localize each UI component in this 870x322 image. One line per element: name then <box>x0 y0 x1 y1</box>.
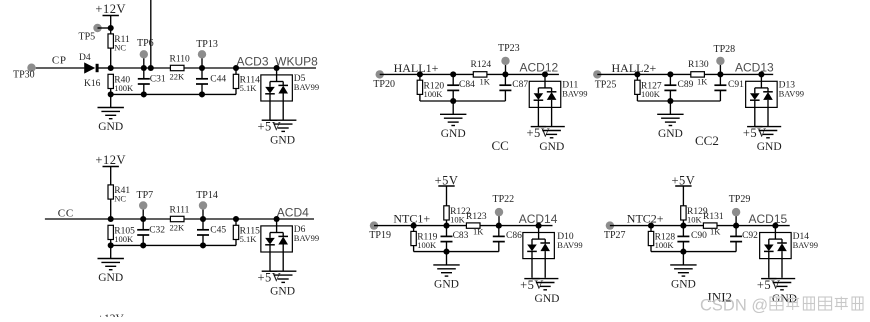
test point TP22 <box>493 194 515 226</box>
svg-text:C44: C44 <box>210 75 226 85</box>
junction <box>733 223 739 229</box>
power +12V <box>95 153 126 185</box>
svg-text:+5V: +5V <box>520 278 544 292</box>
power +5V <box>520 278 544 292</box>
ground <box>769 279 795 290</box>
wire <box>36 67 85 69</box>
svg-text:ACD4: ACD4 <box>277 206 309 220</box>
svg-text:C31: C31 <box>150 75 166 85</box>
diode D10 BAV99 <box>523 226 583 278</box>
wire <box>235 240 237 246</box>
svg-text:GND: GND <box>98 272 123 284</box>
svg-text:TP29: TP29 <box>729 194 751 205</box>
svg-text:C91: C91 <box>728 80 744 90</box>
wire main HALL2 net <box>597 73 773 75</box>
resistor R129 <box>681 206 708 225</box>
power +5V <box>743 126 767 140</box>
junction <box>411 223 417 229</box>
power +5V <box>671 174 695 206</box>
svg-text:CP: CP <box>52 54 67 66</box>
svg-text:22K: 22K <box>170 72 186 82</box>
wire <box>110 89 112 95</box>
resistor R115 <box>233 225 260 244</box>
power +12V <box>95 2 126 28</box>
svg-text:ACD13: ACD13 <box>735 61 774 75</box>
svg-text:TP7: TP7 <box>137 190 154 201</box>
power +5V <box>435 174 459 206</box>
junction <box>667 71 673 77</box>
svg-text:TP14: TP14 <box>196 190 218 201</box>
junction <box>108 216 114 222</box>
wire bottom rail <box>111 244 236 246</box>
svg-text:1K: 1K <box>710 227 721 237</box>
svg-text:100K: 100K <box>417 240 437 250</box>
wire bottom rail <box>651 251 736 253</box>
power +5V <box>757 278 781 292</box>
capacitor C89 <box>664 74 693 101</box>
svg-text:1K: 1K <box>697 77 708 87</box>
svg-text:BAV99: BAV99 <box>294 233 319 243</box>
resistor R110 <box>170 55 190 82</box>
capacitor C45 <box>197 219 226 245</box>
wire <box>235 89 237 95</box>
svg-text:5.1K: 5.1K <box>240 83 258 93</box>
svg-text:+5V: +5V <box>671 174 695 188</box>
svg-text:+5V: +5V <box>257 120 281 134</box>
wire bottom rail <box>637 100 720 102</box>
wire main CP net <box>111 67 316 69</box>
test point TP29 <box>729 194 751 226</box>
svg-text:C92: C92 <box>742 231 758 241</box>
capacitor C91 <box>714 74 744 101</box>
junction <box>648 223 654 229</box>
test point TP6 <box>137 38 154 68</box>
capacitor C44 <box>196 68 226 94</box>
resistor R41 <box>108 185 130 204</box>
svg-text:BAV99: BAV99 <box>557 240 582 250</box>
diode D6 BAV99 <box>261 219 319 271</box>
svg-text:5.1K: 5.1K <box>240 234 258 244</box>
ground <box>98 108 124 134</box>
junction <box>680 223 686 229</box>
svg-text:ACD12: ACD12 <box>520 61 559 75</box>
svg-text:R110: R110 <box>170 55 190 65</box>
svg-text:TP27: TP27 <box>604 230 626 241</box>
svg-text:GND: GND <box>98 121 123 133</box>
svg-text:CSDN @: CSDN @ <box>700 297 768 315</box>
svg-text:NTC2+: NTC2+ <box>627 212 664 226</box>
junction <box>536 223 542 229</box>
svg-text:C90: C90 <box>691 231 707 241</box>
wire <box>650 246 652 252</box>
test point TP7 <box>137 190 154 219</box>
svg-text:BAV99: BAV99 <box>779 89 804 99</box>
test point TP5 <box>79 24 102 43</box>
wire <box>419 94 421 101</box>
resistor R123 <box>466 212 487 237</box>
svg-text:100K: 100K <box>114 234 134 244</box>
junction <box>274 65 280 71</box>
svg-text:GND: GND <box>757 141 782 153</box>
wire <box>682 220 684 226</box>
junction <box>758 71 764 77</box>
svg-text:ACD15: ACD15 <box>749 212 788 226</box>
capacitor C84 <box>447 74 475 101</box>
diode D4 <box>79 53 111 89</box>
resistor R120 <box>417 80 444 99</box>
svg-text:CC2: CC2 <box>695 133 719 148</box>
junction <box>108 242 114 248</box>
wire <box>669 101 671 114</box>
svg-text:GND: GND <box>434 278 459 290</box>
capacitor C31 <box>138 68 166 94</box>
wire bottom rail <box>111 93 236 95</box>
junction <box>443 223 449 229</box>
resistor R122 <box>444 206 471 225</box>
test point TP27 <box>604 221 626 241</box>
svg-text:C86: C86 <box>506 231 522 241</box>
svg-text:BAV99: BAV99 <box>793 240 818 250</box>
junction <box>680 249 686 255</box>
wire <box>110 199 112 219</box>
ground <box>538 127 564 138</box>
test point TP30 <box>13 63 36 80</box>
test point TP14 <box>196 190 218 219</box>
svg-text:NC: NC <box>114 194 126 204</box>
ground <box>532 279 558 290</box>
resistor R105 <box>108 225 135 244</box>
wire <box>419 74 421 80</box>
junction <box>772 223 778 229</box>
test point TP28 <box>714 44 736 74</box>
capacitor C87 <box>499 74 528 101</box>
resistor R11 <box>108 34 130 53</box>
wire main CC net <box>45 218 314 220</box>
wire <box>110 94 112 107</box>
svg-text:100K: 100K <box>641 89 661 99</box>
wire <box>110 48 112 68</box>
capacitor C92 <box>730 226 758 252</box>
test point TP13 <box>196 39 218 68</box>
svg-text:+5V: +5V <box>435 174 459 188</box>
test point TP19 <box>369 221 391 241</box>
svg-text:R131: R131 <box>703 212 724 222</box>
junction <box>502 71 508 77</box>
wire <box>446 220 448 226</box>
wire <box>413 246 415 252</box>
svg-text:10K: 10K <box>687 215 703 225</box>
ground <box>670 265 696 291</box>
svg-text:GND: GND <box>671 278 696 290</box>
svg-text:100K: 100K <box>114 83 134 93</box>
junction <box>141 91 147 97</box>
svg-text:GND: GND <box>270 286 295 298</box>
wire <box>98 27 111 29</box>
svg-text:K16: K16 <box>84 79 101 89</box>
wire <box>682 252 684 265</box>
wire bottom rail <box>420 100 506 102</box>
junction <box>108 25 114 31</box>
svg-text:TP5: TP5 <box>79 32 96 43</box>
junction <box>140 216 146 222</box>
svg-text:R111: R111 <box>170 206 190 216</box>
svg-text:D4: D4 <box>79 53 91 63</box>
resistor R114 <box>233 74 260 93</box>
svg-text:+5V: +5V <box>743 126 767 140</box>
wire <box>446 252 448 265</box>
wire <box>110 240 112 246</box>
resistor R130 <box>688 60 709 87</box>
resistor R127 <box>635 80 662 99</box>
svg-text:TP23: TP23 <box>498 43 520 54</box>
svg-text:GND: GND <box>441 128 466 140</box>
junction <box>667 98 673 104</box>
junction <box>233 216 239 222</box>
wire <box>235 68 237 74</box>
junction <box>717 71 723 77</box>
svg-text:+5V: +5V <box>257 271 281 285</box>
svg-text:TP30: TP30 <box>13 70 35 81</box>
svg-text:1K: 1K <box>473 227 484 237</box>
svg-text:C84: C84 <box>459 80 475 90</box>
wire main NTC1 net <box>374 225 553 227</box>
svg-text:HALL1+: HALL1+ <box>394 61 439 75</box>
wire <box>110 28 112 34</box>
svg-text:C32: C32 <box>149 226 165 236</box>
svg-text:+5V: +5V <box>757 278 781 292</box>
junction <box>148 65 154 71</box>
junction <box>450 71 456 77</box>
svg-text:GND: GND <box>270 135 295 147</box>
junction <box>200 216 206 222</box>
junction <box>140 242 146 248</box>
svg-text:GND: GND <box>539 141 564 153</box>
svg-text:TP13: TP13 <box>196 39 218 50</box>
diode D13 BAV99 <box>746 74 804 126</box>
svg-text:NC: NC <box>114 43 126 53</box>
svg-text:+5V: +5V <box>526 126 550 140</box>
junction <box>274 216 280 222</box>
capacitor C32 <box>137 219 165 245</box>
wire <box>636 94 638 101</box>
ground <box>270 271 296 282</box>
junction <box>542 71 548 77</box>
svg-text:C87: C87 <box>512 80 528 90</box>
resistor R131 <box>703 212 724 237</box>
svg-text:HALL2+: HALL2+ <box>612 61 657 75</box>
svg-text:C45: C45 <box>210 226 226 236</box>
svg-text:CC: CC <box>58 208 74 220</box>
resistor R124 <box>471 60 492 87</box>
svg-text:C83: C83 <box>453 231 469 241</box>
capacitor C90 <box>677 226 707 252</box>
svg-text:GND: GND <box>535 293 560 305</box>
junction <box>200 242 206 248</box>
test point TP23 <box>498 43 520 74</box>
wire <box>235 219 237 225</box>
wire <box>413 226 415 232</box>
junction <box>233 65 239 71</box>
svg-text:BAV99: BAV99 <box>562 89 587 99</box>
svg-text:BAV99: BAV99 <box>294 82 319 92</box>
diode D11 BAV99 <box>529 74 587 126</box>
svg-text:TP20: TP20 <box>373 79 395 90</box>
diode D14 BAV99 <box>760 226 818 278</box>
power +5V <box>526 126 550 140</box>
svg-text:TP19: TP19 <box>369 230 391 241</box>
watermark CSDN <box>700 297 863 315</box>
junction <box>141 65 147 71</box>
junction <box>450 98 456 104</box>
resistor R119 <box>411 231 438 250</box>
svg-text:CC: CC <box>492 138 509 153</box>
junction <box>199 91 205 97</box>
wire <box>636 74 638 80</box>
wire <box>110 245 112 258</box>
svg-text:C89: C89 <box>678 80 694 90</box>
power +5V <box>257 120 281 134</box>
ground <box>270 120 296 131</box>
wire main NTC2 net <box>610 225 790 227</box>
svg-text:R130: R130 <box>688 60 709 70</box>
junction <box>443 249 449 255</box>
svg-text:GND: GND <box>658 128 683 140</box>
wire bottom rail <box>414 251 499 253</box>
svg-text:22K: 22K <box>170 223 186 233</box>
junction <box>417 71 423 77</box>
svg-text:TP22: TP22 <box>493 194 515 205</box>
wire from top <box>150 0 152 68</box>
svg-text:+12V: +12V <box>98 313 125 317</box>
wire <box>650 226 652 232</box>
wire main HALL1 net <box>380 73 559 75</box>
resistor R128 <box>648 231 675 250</box>
svg-text:100K: 100K <box>655 240 675 250</box>
test point TP20 <box>373 70 395 90</box>
test point TP25 <box>593 70 616 90</box>
ground <box>755 127 781 138</box>
wire <box>452 101 454 114</box>
resistor R40 <box>108 74 134 93</box>
svg-text:+12V: +12V <box>95 153 126 167</box>
svg-text:TP25: TP25 <box>595 80 617 91</box>
svg-text:R124: R124 <box>471 60 492 70</box>
svg-text:10K: 10K <box>450 215 466 225</box>
ground <box>98 259 124 285</box>
diode D5 BAV99 <box>261 68 319 120</box>
svg-text:100K: 100K <box>424 89 444 99</box>
junction <box>634 71 640 77</box>
junction <box>199 65 205 71</box>
power +5V <box>257 271 281 285</box>
resistor R111 <box>170 206 190 233</box>
ground <box>657 114 683 140</box>
capacitor C83 <box>441 226 469 252</box>
svg-text:1K: 1K <box>480 77 491 87</box>
junction <box>108 65 114 71</box>
capacitor C86 <box>493 226 522 252</box>
svg-text:TP28: TP28 <box>714 44 736 55</box>
junction <box>496 223 502 229</box>
svg-text:+12V: +12V <box>95 2 126 16</box>
ground <box>440 114 466 140</box>
svg-text:R123: R123 <box>466 212 487 222</box>
ground <box>433 265 459 291</box>
junction <box>108 91 114 97</box>
